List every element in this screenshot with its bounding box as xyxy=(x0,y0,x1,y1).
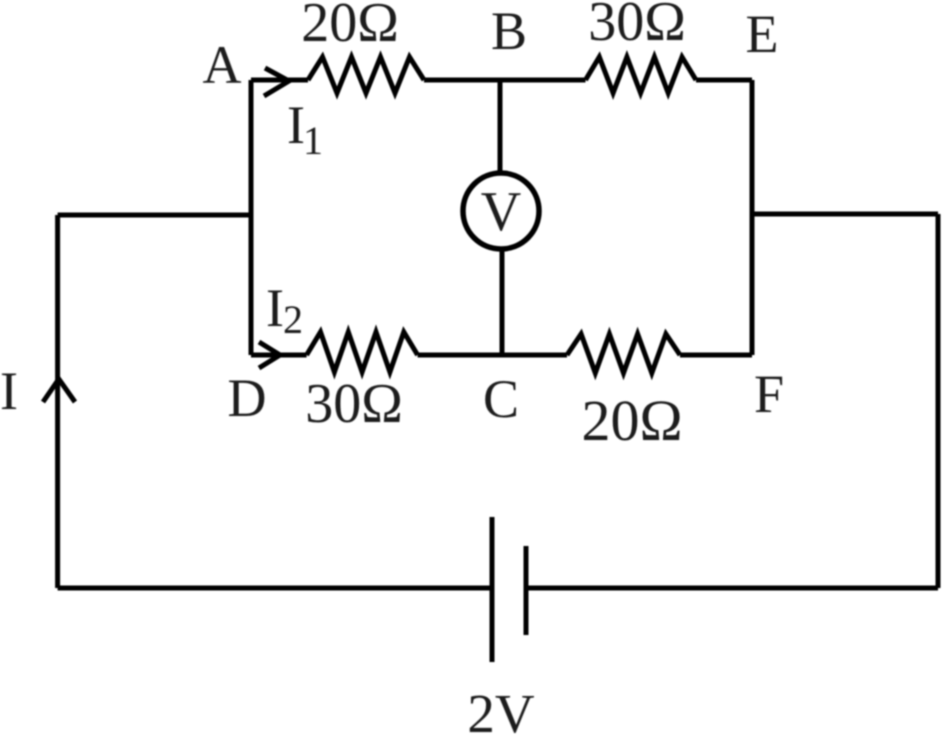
svg-text:A: A xyxy=(203,35,242,95)
wire R2 to E corner xyxy=(696,78,752,83)
battery BT1 long plate xyxy=(490,517,495,662)
svg-text:D: D xyxy=(228,368,267,428)
wire bottom rail battery to right xyxy=(526,586,938,591)
svg-text:20Ω: 20Ω xyxy=(581,388,682,453)
wire R1 to B to R2 xyxy=(424,78,586,83)
svg-text:30Ω: 30Ω xyxy=(305,373,403,435)
resistor R2 30ohm top-right zigzag xyxy=(586,57,697,93)
svg-text:I: I xyxy=(0,361,18,421)
wire left outer vertical xyxy=(55,215,60,588)
svg-text:1: 1 xyxy=(303,118,323,163)
wire left connector xyxy=(58,213,251,218)
wire right outer vertical xyxy=(936,214,941,588)
resistor R1 20ohm top-left zigzag xyxy=(308,57,424,93)
svg-text:F: F xyxy=(754,364,784,424)
arrow I on left outer vertical xyxy=(43,379,75,402)
resistor R4 20ohm bottom-right zigzag xyxy=(567,334,680,373)
svg-text:V: V xyxy=(481,181,521,243)
arrow I1 on wire at A xyxy=(264,68,289,96)
wire A to R1 xyxy=(251,78,308,83)
voltmeter U1 circle xyxy=(463,173,539,249)
wire right connector xyxy=(752,212,938,217)
arrow I2 on wire at D xyxy=(259,342,280,368)
svg-text:B: B xyxy=(491,1,527,61)
svg-text:E: E xyxy=(746,4,779,64)
node C junction stub to voltmeter xyxy=(500,248,505,355)
wire E to F right inner vertical xyxy=(750,80,755,355)
wire R3 to C to R4 xyxy=(418,353,567,358)
svg-text:2: 2 xyxy=(283,297,303,342)
svg-text:2V: 2V xyxy=(467,683,535,740)
resistor R3 30ohm bottom-left zigzag xyxy=(307,332,418,372)
svg-text:C: C xyxy=(483,369,519,429)
svg-text:20Ω: 20Ω xyxy=(301,0,399,54)
battery BT1 short plate xyxy=(524,546,529,635)
svg-text:I: I xyxy=(266,278,284,338)
wire D to R3 xyxy=(251,353,307,358)
wire R4 to F xyxy=(680,353,752,358)
wire A to D left inner vertical xyxy=(249,80,254,355)
wire bottom rail left to battery xyxy=(58,586,492,591)
node B junction stub to voltmeter xyxy=(498,80,503,174)
svg-text:30Ω: 30Ω xyxy=(588,0,686,53)
